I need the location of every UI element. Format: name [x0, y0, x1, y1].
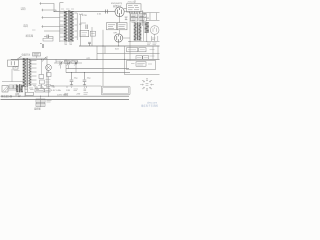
wire plug to switch — [10, 58, 12, 61]
box B10 — [36, 103, 45, 106]
wire bus top tie — [60, 2, 64, 4]
cap C6 — [68, 62, 69, 65]
wire speaker to T4 — [8, 87, 16, 90]
wire transformer bottom lead 2 — [27, 87, 29, 93]
svg-text:6.3V 0.3A: 6.3V 0.3A — [51, 89, 61, 92]
dash right edge — [152, 38, 156, 40]
wire to coupling cap C1 — [44, 36, 47, 38]
tube V3 envelope — [150, 26, 159, 35]
wire fuse stem — [36, 56, 38, 58]
wire x47 drop — [46, 56, 48, 88]
wire y72.6 run — [66, 72, 130, 74]
electrolytic cap C8 — [70, 73, 74, 85]
box R3 — [136, 56, 142, 59]
wire x97 drop — [96, 46, 98, 59]
component box RC4 — [139, 18, 146, 21]
capacitor C2 on top run — [106, 10, 108, 14]
wire x124.5 drop — [124, 46, 126, 75]
box R1 marks — [128, 49, 136, 51]
volume pot marks — [40, 44, 44, 48]
wire input 5 — [44, 30, 64, 32]
cap C5 — [60, 62, 61, 65]
box B2 marks — [108, 25, 115, 29]
tube V1 cathode marks — [125, 17, 128, 20]
capacitor C1 — [47, 35, 48, 39]
wire x66 tie — [65, 59, 67, 72]
tube socket pin diagram — [140, 79, 154, 91]
box B3 marks — [119, 25, 126, 29]
box B4 — [80, 30, 89, 36]
wire x12 drop — [11, 69, 13, 82]
box under C1 — [43, 38, 53, 41]
box B4b — [90, 31, 95, 36]
wire B3 to V2 — [119, 30, 121, 34]
transformer T2 core — [136, 22, 139, 40]
wire y59.3 long run — [11, 58, 160, 60]
wire top right run — [124, 10, 143, 12]
box R2 — [139, 48, 146, 52]
plug P1 pins — [11, 61, 14, 65]
svg-text:12Ω: 12Ω — [66, 90, 70, 92]
pot wiper arrow — [42, 58, 46, 62]
box row B5 — [35, 89, 44, 93]
box row B6 — [45, 89, 51, 93]
jack J1 — [40, 2, 42, 4]
marks near x147 — [147, 17, 149, 18]
wire x40.4 drop — [39, 96, 41, 107]
switch S1 — [17, 56, 22, 59]
box B4 marks — [82, 33, 88, 35]
wire L1 drop — [146, 32, 148, 41]
wire input 4 — [43, 26, 64, 28]
tube V1 envelope — [115, 7, 124, 17]
wire transformer bottom lead 1 — [24, 87, 26, 97]
wire drop x156.6 — [156, 13, 158, 21]
tube V1 electrodes — [118, 8, 122, 17]
transformer T1 core — [67, 10, 70, 42]
box R4 marks — [144, 57, 148, 59]
wire y99.6 long — [1, 99, 130, 101]
tube V3 electrodes — [153, 27, 156, 32]
svg-text:220: 220 — [76, 94, 81, 96]
power transformer T3 secondary winding — [29, 60, 32, 86]
wire V3 stem — [152, 34, 158, 41]
wire x143.5 drop — [143, 20, 145, 41]
box R4 — [39, 75, 44, 79]
power transformer T3 core — [26, 58, 29, 87]
trimmer arrows — [59, 61, 78, 66]
marks under lamp box — [46, 80, 52, 85]
wire V2 stem — [118, 42, 120, 46]
box row2 B8 — [26, 92, 34, 95]
wire y68.6 run — [66, 68, 129, 70]
speaker box SP1 — [2, 86, 8, 93]
wire y41.3 run — [128, 40, 160, 42]
small boxes on heater row — [64, 60, 70, 63]
box B4b mark — [91, 32, 94, 34]
svg-text:470K: 470K — [82, 15, 88, 17]
wire main top run to V1 — [54, 10, 115, 12]
wire x153 drop — [152, 46, 154, 59]
fuse box F1 — [33, 53, 41, 56]
dots mid — [84, 89, 87, 90]
svg-text:拾音器: 拾音器 — [26, 34, 34, 38]
wire x158 drop — [157, 46, 159, 59]
small box cluster — [9, 85, 13, 89]
wire x41.5 drop — [41, 59, 43, 88]
fuse marks — [34, 54, 40, 55]
marks near speaker — [18, 95, 21, 97]
box B1 (tone network) — [127, 4, 142, 12]
tube V2 electrodes — [117, 35, 121, 43]
svg-text:话筒: 话筒 — [23, 24, 29, 28]
box R2 marks — [140, 49, 145, 51]
output transformer T4 core — [18, 84, 21, 92]
power plug box P1 — [8, 60, 19, 66]
dashes under transformer T1 — [64, 43, 72, 45]
electrolytic cap C9 — [83, 73, 87, 85]
tiny dash left — [32, 29, 36, 31]
box under lamp — [47, 73, 52, 77]
wire top right y12.6 — [142, 12, 159, 14]
output transformer T4 left winding — [16, 85, 19, 92]
cap C3 near B2 — [86, 25, 87, 30]
transformer T1 left winding — [64, 11, 68, 41]
jack J3 — [42, 16, 44, 18]
box R3 marks — [137, 57, 141, 59]
jack J4 — [42, 25, 44, 27]
wire T1 right bus — [76, 13, 78, 40]
box RC marks — [131, 15, 145, 20]
box hookup diagram frame — [101, 86, 130, 95]
wire input 1 — [41, 4, 54, 12]
power transformer T3 primary winding — [23, 59, 26, 87]
box R4 — [143, 56, 149, 59]
marks mid row1 — [74, 89, 79, 90]
junction dots — [25, 11, 148, 97]
dashes right of stacked boxes — [47, 101, 52, 103]
wire V1 stem to box B3 — [119, 17, 121, 23]
pilot lamp LP1 — [46, 65, 52, 71]
wire V2 plate right — [123, 37, 130, 39]
marks row2 right — [84, 93, 89, 94]
jack J2 — [42, 9, 44, 11]
wire x103 drop — [102, 30, 104, 46]
small box cluster2 — [14, 85, 17, 89]
output transformer T4 right winding — [20, 85, 23, 92]
wire heater run y63 — [54, 62, 82, 64]
wire y96.2 long — [1, 95, 130, 97]
wire right y20.3 — [146, 19, 160, 21]
svg-text:话筒: 话筒 — [21, 7, 27, 11]
transformer T1 right taps — [74, 13, 77, 37]
box B3 — [117, 23, 127, 30]
transformer T2 left winding — [134, 23, 137, 41]
wire V1 plate to box B1 — [124, 7, 127, 9]
tick row under top wire — [130, 12, 140, 14]
component box RC1 — [131, 14, 138, 17]
text marks under rail y41 — [147, 43, 157, 45]
wire y53.5 run — [97, 53, 160, 55]
transformer T1 left taps — [60, 13, 63, 41]
box hookup diagram inner frame — [103, 87, 129, 93]
wire input 3 — [43, 17, 60, 19]
ticks on y86 wire — [54, 86, 87, 88]
wire x92 drop — [91, 27, 93, 46]
transformer T1 right winding — [70, 11, 74, 41]
cap C7 — [75, 62, 76, 65]
wire x130 drop — [129, 12, 131, 61]
svg-text:维库电子市场网: 维库电子市场网 — [141, 103, 158, 107]
box R1 — [127, 48, 138, 52]
transformer T3 right taps — [31, 61, 36, 85]
text marks right edge — [150, 50, 155, 57]
wire y86 run to frame — [49, 85, 102, 87]
transformer T1 label marks — [61, 8, 74, 10]
cap stems to rail — [61, 65, 76, 73]
wire x80.5 long vertical — [80, 14, 82, 46]
wire lamp chain — [48, 70, 50, 96]
box B2 (feedback) — [107, 23, 117, 30]
wire y46 run — [79, 45, 160, 47]
speaker cone — [3, 87, 8, 93]
fuse cluster left — [13, 67, 18, 70]
ground under C9 — [83, 85, 86, 87]
wire heater tie — [55, 59, 57, 63]
box B1 marks — [128, 6, 139, 10]
lamp LP1 marks — [47, 66, 51, 70]
wire drop x142.3 — [141, 10, 143, 26]
coil L1 — [145, 22, 149, 33]
marks above box row — [33, 85, 54, 87]
wire y58.2 over transformer — [19, 57, 48, 59]
wire y23 stub — [81, 22, 86, 24]
cluster marks below boxes — [132, 22, 146, 24]
component box RC2 — [131, 18, 138, 21]
cap marks on x142 — [143, 14, 146, 15]
wire y81.6 left — [2, 81, 24, 83]
marks inside headphone box — [136, 62, 146, 66]
component box RC3 — [139, 14, 146, 17]
cap C4 with ground — [88, 42, 91, 46]
transformer T2 right winding — [139, 23, 142, 41]
wire y73.6 run — [125, 74, 160, 76]
wire drop x150 — [149, 13, 151, 21]
tube V2 envelope — [115, 34, 123, 42]
wire input 2 — [43, 10, 56, 11]
fuse cluster marks — [14, 66, 20, 71]
box headphone note frame — [127, 61, 156, 70]
wire x103 long drop — [102, 46, 104, 86]
wire vertical bus left of transformer T1 — [59, 3, 61, 43]
box B9 — [36, 99, 45, 103]
wire C1 out — [49, 37, 53, 39]
marks under transformer T3 — [24, 88, 44, 90]
box R5 — [40, 80, 45, 84]
wire x105 drop — [104, 46, 106, 54]
ground under C8 — [70, 85, 73, 87]
